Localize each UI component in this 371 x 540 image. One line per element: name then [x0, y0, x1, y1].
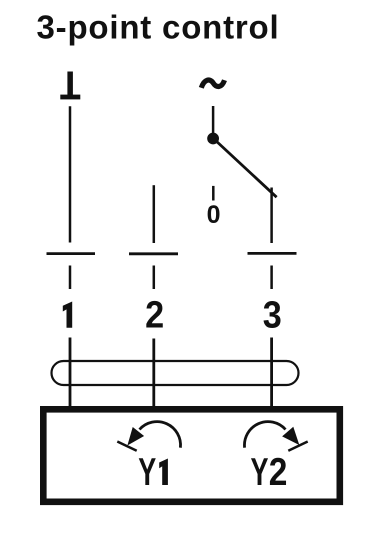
wire 2 lower segment [152, 339, 155, 411]
terminal 1 stub [69, 266, 72, 290]
neutral terminal symbol (inverted-T) on wire 1 [60, 72, 80, 100]
switch pole wire from ~ [212, 106, 215, 134]
rotation arrow Y2 (clockwise arc) [244, 422, 285, 448]
svg-text:Y: Y [251, 451, 269, 494]
arrow Y1 head [128, 428, 143, 445]
svg-text:0: 0 [207, 201, 221, 229]
label 1 [63, 302, 72, 328]
terminal 2 bar [129, 252, 178, 255]
actuator housing [43, 409, 340, 502]
AC supply symbol ~ [201, 80, 224, 88]
arrow Y2 head [283, 428, 298, 444]
wire 1 lower segment [69, 338, 72, 411]
svg-text:3: 3 [263, 293, 282, 336]
terminal 2 stub [153, 266, 156, 290]
switch position-0 contact mark [212, 186, 215, 201]
wire 3 lower segment [270, 338, 273, 411]
rotation arrow Y1 (counter-clockwise arc) [140, 422, 181, 448]
svg-text:Y: Y [138, 451, 156, 494]
cable bundle sleeve (stadium) [52, 361, 299, 385]
svg-text:3-point control: 3-point control [37, 9, 280, 46]
switch blade (diagonal to wire 3) [215, 140, 277, 198]
terminal 1 bar [47, 252, 96, 255]
svg-text:2: 2 [269, 450, 288, 494]
wire 3 upper segment [270, 188, 273, 244]
terminal 3 bar [248, 252, 297, 255]
svg-text:2: 2 [145, 293, 164, 336]
wire 2 upper segment [153, 185, 156, 243]
arrow Y1 stop tick [117, 442, 136, 451]
switch junction dot [207, 133, 219, 145]
wire 1 upper segment [69, 106, 72, 242]
terminal 3 stub [270, 266, 273, 290]
label Y1 [138, 451, 168, 494]
arrow Y2 stop tick [288, 442, 307, 451]
label Y2 [251, 450, 288, 494]
